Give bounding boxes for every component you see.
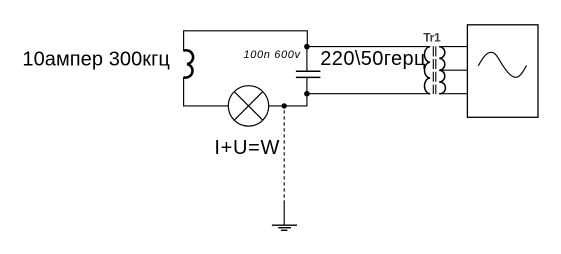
svg-text:Tr1: Tr1 [423,30,441,44]
wire capacitor bottom lead [306,78,308,106]
svg-text:100n 600v: 100n 600v [244,49,302,61]
transformer Tr1 primary winding [424,47,430,94]
wire ground stem [283,202,285,225]
node capacitor top junction [304,44,310,50]
transformer core line 1 [432,46,434,94]
node ground tap junction [282,103,287,108]
wire lamp to capacitor branch [269,105,308,107]
ground [272,225,297,230]
inductor L1 [183,50,193,77]
wire mid bottom to transformer [307,93,430,95]
wire left vertical upper [183,30,185,51]
wire top horizontal [184,30,308,32]
wire capacitor top lead [306,47,308,71]
wire dashed to ground [283,110,285,202]
svg-text:10ампер 300кгц: 10ампер 300кгц [22,48,170,70]
wire secondary middle tap to box [439,69,467,71]
wire mid top to transformer [307,46,430,48]
AC sine wave [478,52,526,77]
wire bottom to lamp [183,105,228,107]
lamp HL1 [228,86,268,126]
wire right vertical of top loop [306,30,308,46]
svg-text:220\50герц: 220\50герц [320,48,425,70]
svg-text:I+U=W: I+U=W [214,137,279,159]
wire secondary bottom to box [439,93,467,95]
wire left vertical lower [183,77,185,106]
wire secondary top to box [439,46,467,48]
capacitor C1 [296,71,321,77]
AC source box [467,25,538,118]
transformer core line 2 [435,46,437,94]
transformer Tr1 secondary winding [439,47,445,94]
node capacitor bottom junction [304,91,310,97]
